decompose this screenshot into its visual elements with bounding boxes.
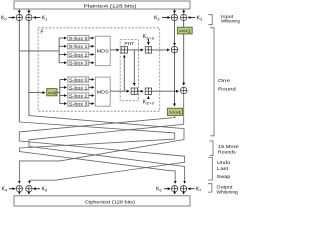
s-box 2 (g1) (68, 52, 89, 58)
svg-text:Rounds: Rounds (218, 150, 237, 155)
svg-text:Whitening: Whitening (221, 19, 240, 24)
xor output whitening C (172, 186, 178, 192)
wire K2r+8 down (147, 39, 149, 45)
bracket one round (210, 28, 214, 136)
svg-text:S-box 0: S-box 0 (69, 36, 88, 41)
wire K7 arrow (188, 188, 194, 190)
s-box 2 (g2) (68, 93, 89, 99)
wire MDS2 to PHT lower adder (110, 90, 129, 92)
wire C out zigzag to output xor B (19, 115, 184, 183)
rotate left 1 box (177, 27, 192, 34)
svg-text:S-box 2: S-box 2 (69, 93, 88, 98)
F function dashed box (38, 28, 160, 111)
svg-text:Last: Last (217, 166, 229, 171)
adder PHT lower (131, 88, 137, 94)
bracket output whitening (208, 184, 212, 192)
wire K0 arrow (9, 17, 15, 19)
svg-text:MDS: MDS (97, 89, 109, 95)
bracket 15 more rounds (209, 141, 213, 156)
adder round key 2r+9 (145, 88, 151, 94)
wire B into rotation (29, 92, 45, 94)
wire K4 arrow (9, 188, 15, 190)
wire K3 arrow (188, 17, 195, 19)
wire B vertical (28, 21, 30, 116)
s-box 0 (g1) (68, 35, 89, 41)
wire D vertical into rot box (183, 21, 185, 28)
wires s-boxes g1 to MDS1 (89, 38, 94, 63)
wire A into g function (19, 50, 59, 52)
xor round D (180, 87, 187, 94)
wire MDS1 to PHT adder (110, 49, 119, 51)
svg-text:PHT: PHT (124, 41, 134, 46)
adder round key 2r+8 (145, 47, 151, 53)
xor input whitening C (171, 14, 177, 20)
s-box 3 (g1) (68, 60, 89, 66)
swap crossing wires (19, 94, 184, 184)
wire A zigzag to output xor C (19, 122, 175, 183)
svg-text:K7: K7 (196, 187, 202, 193)
bracket undo last swap (208, 158, 212, 181)
wire K6 arrow (164, 188, 170, 190)
wire rot8 to splitter g2 (57, 80, 66, 104)
svg-text:<<<8: <<<8 (48, 90, 57, 96)
svg-text:S-box 2: S-box 2 (69, 52, 88, 57)
xor input whitening B (26, 14, 32, 20)
svg-text:Ciphertext (128 bits): Ciphertext (128 bits) (85, 199, 136, 204)
xor output whitening B (26, 186, 32, 192)
wire D rot1 down to xor (183, 34, 185, 85)
s-box 1 (g2) (68, 85, 89, 91)
svg-text:K2r+9: K2r+9 (143, 100, 154, 106)
svg-text:15 More: 15 More (218, 144, 239, 149)
svg-text:K3: K3 (197, 16, 203, 22)
svg-text:Swap: Swap (217, 174, 231, 179)
s-box 0 (g2) (68, 77, 89, 83)
wire K5 arrow (33, 188, 40, 190)
ciphertext box (14, 196, 190, 206)
svg-text:K6: K6 (156, 187, 162, 193)
svg-text:<<<1: <<<1 (179, 29, 191, 35)
wire F0 to xor C (152, 49, 170, 51)
svg-text:K4: K4 (2, 187, 8, 193)
wire pht up from lower line (123, 55, 125, 91)
xor output whitening D (180, 186, 186, 192)
PHT dashed box (120, 40, 138, 101)
svg-text:S-box 0: S-box 0 (69, 77, 88, 82)
wire K2 arrow (162, 17, 170, 19)
svg-text:One: One (218, 78, 231, 83)
wires s-boxes g2 to MDS2 (89, 80, 94, 104)
svg-text:>>>1: >>>1 (169, 110, 181, 116)
svg-text:Whitening: Whitening (217, 190, 239, 195)
wire pht lower out (138, 90, 144, 92)
svg-text:MDS: MDS (97, 49, 109, 55)
xor output whitening A (16, 186, 22, 192)
plaintext box (14, 1, 190, 9)
xor input whitening A (16, 14, 22, 20)
wire C vertical into round (174, 21, 176, 46)
wire B zigzag to output xor A (19, 116, 184, 184)
svg-text:Undo: Undo (217, 160, 231, 165)
wires xors into ciphertext box (19, 192, 183, 194)
svg-text:F: F (41, 30, 44, 36)
MDS matrix 1 (95, 36, 110, 65)
svg-text:S-box 1: S-box 1 (69, 85, 88, 90)
s-box 1 (g1) (68, 44, 89, 50)
s-box 3 (g2) (68, 101, 89, 107)
svg-text:Output: Output (217, 184, 234, 189)
wire plaintext to input whitening xors (19, 10, 183, 14)
svg-text:S-box 1: S-box 1 (69, 44, 88, 49)
rotate left 8 box (47, 89, 57, 97)
svg-text:Plaintext (128 bits): Plaintext (128 bits) (84, 3, 138, 8)
MDS matrix 2 (95, 77, 110, 106)
svg-text:S-box 3: S-box 3 (69, 102, 88, 107)
wire D out zigzag to output xor D (29, 94, 185, 184)
svg-text:K5: K5 (42, 187, 48, 193)
wire A vertical (18, 21, 20, 122)
adder PHT upper (121, 47, 127, 53)
svg-text:K2: K2 (154, 16, 160, 22)
wire splitter g1 (59, 38, 66, 63)
xor input whitening D (181, 14, 187, 20)
xor round C (171, 46, 178, 53)
svg-text:K0: K0 (1, 16, 7, 22)
wire pht upper out / cross branch (128, 50, 144, 86)
wire K1 arrow (33, 17, 40, 19)
rotate right 1 box (167, 108, 182, 116)
wire F1 to xor D (152, 90, 179, 92)
svg-text:K1: K1 (42, 16, 48, 22)
wire C xor down to ror1 (174, 53, 176, 106)
svg-text:S-box 3: S-box 3 (69, 61, 88, 66)
bracket input whitening (208, 15, 212, 25)
svg-text:Round: Round (218, 87, 236, 92)
wire K2r+9 up (147, 96, 149, 99)
